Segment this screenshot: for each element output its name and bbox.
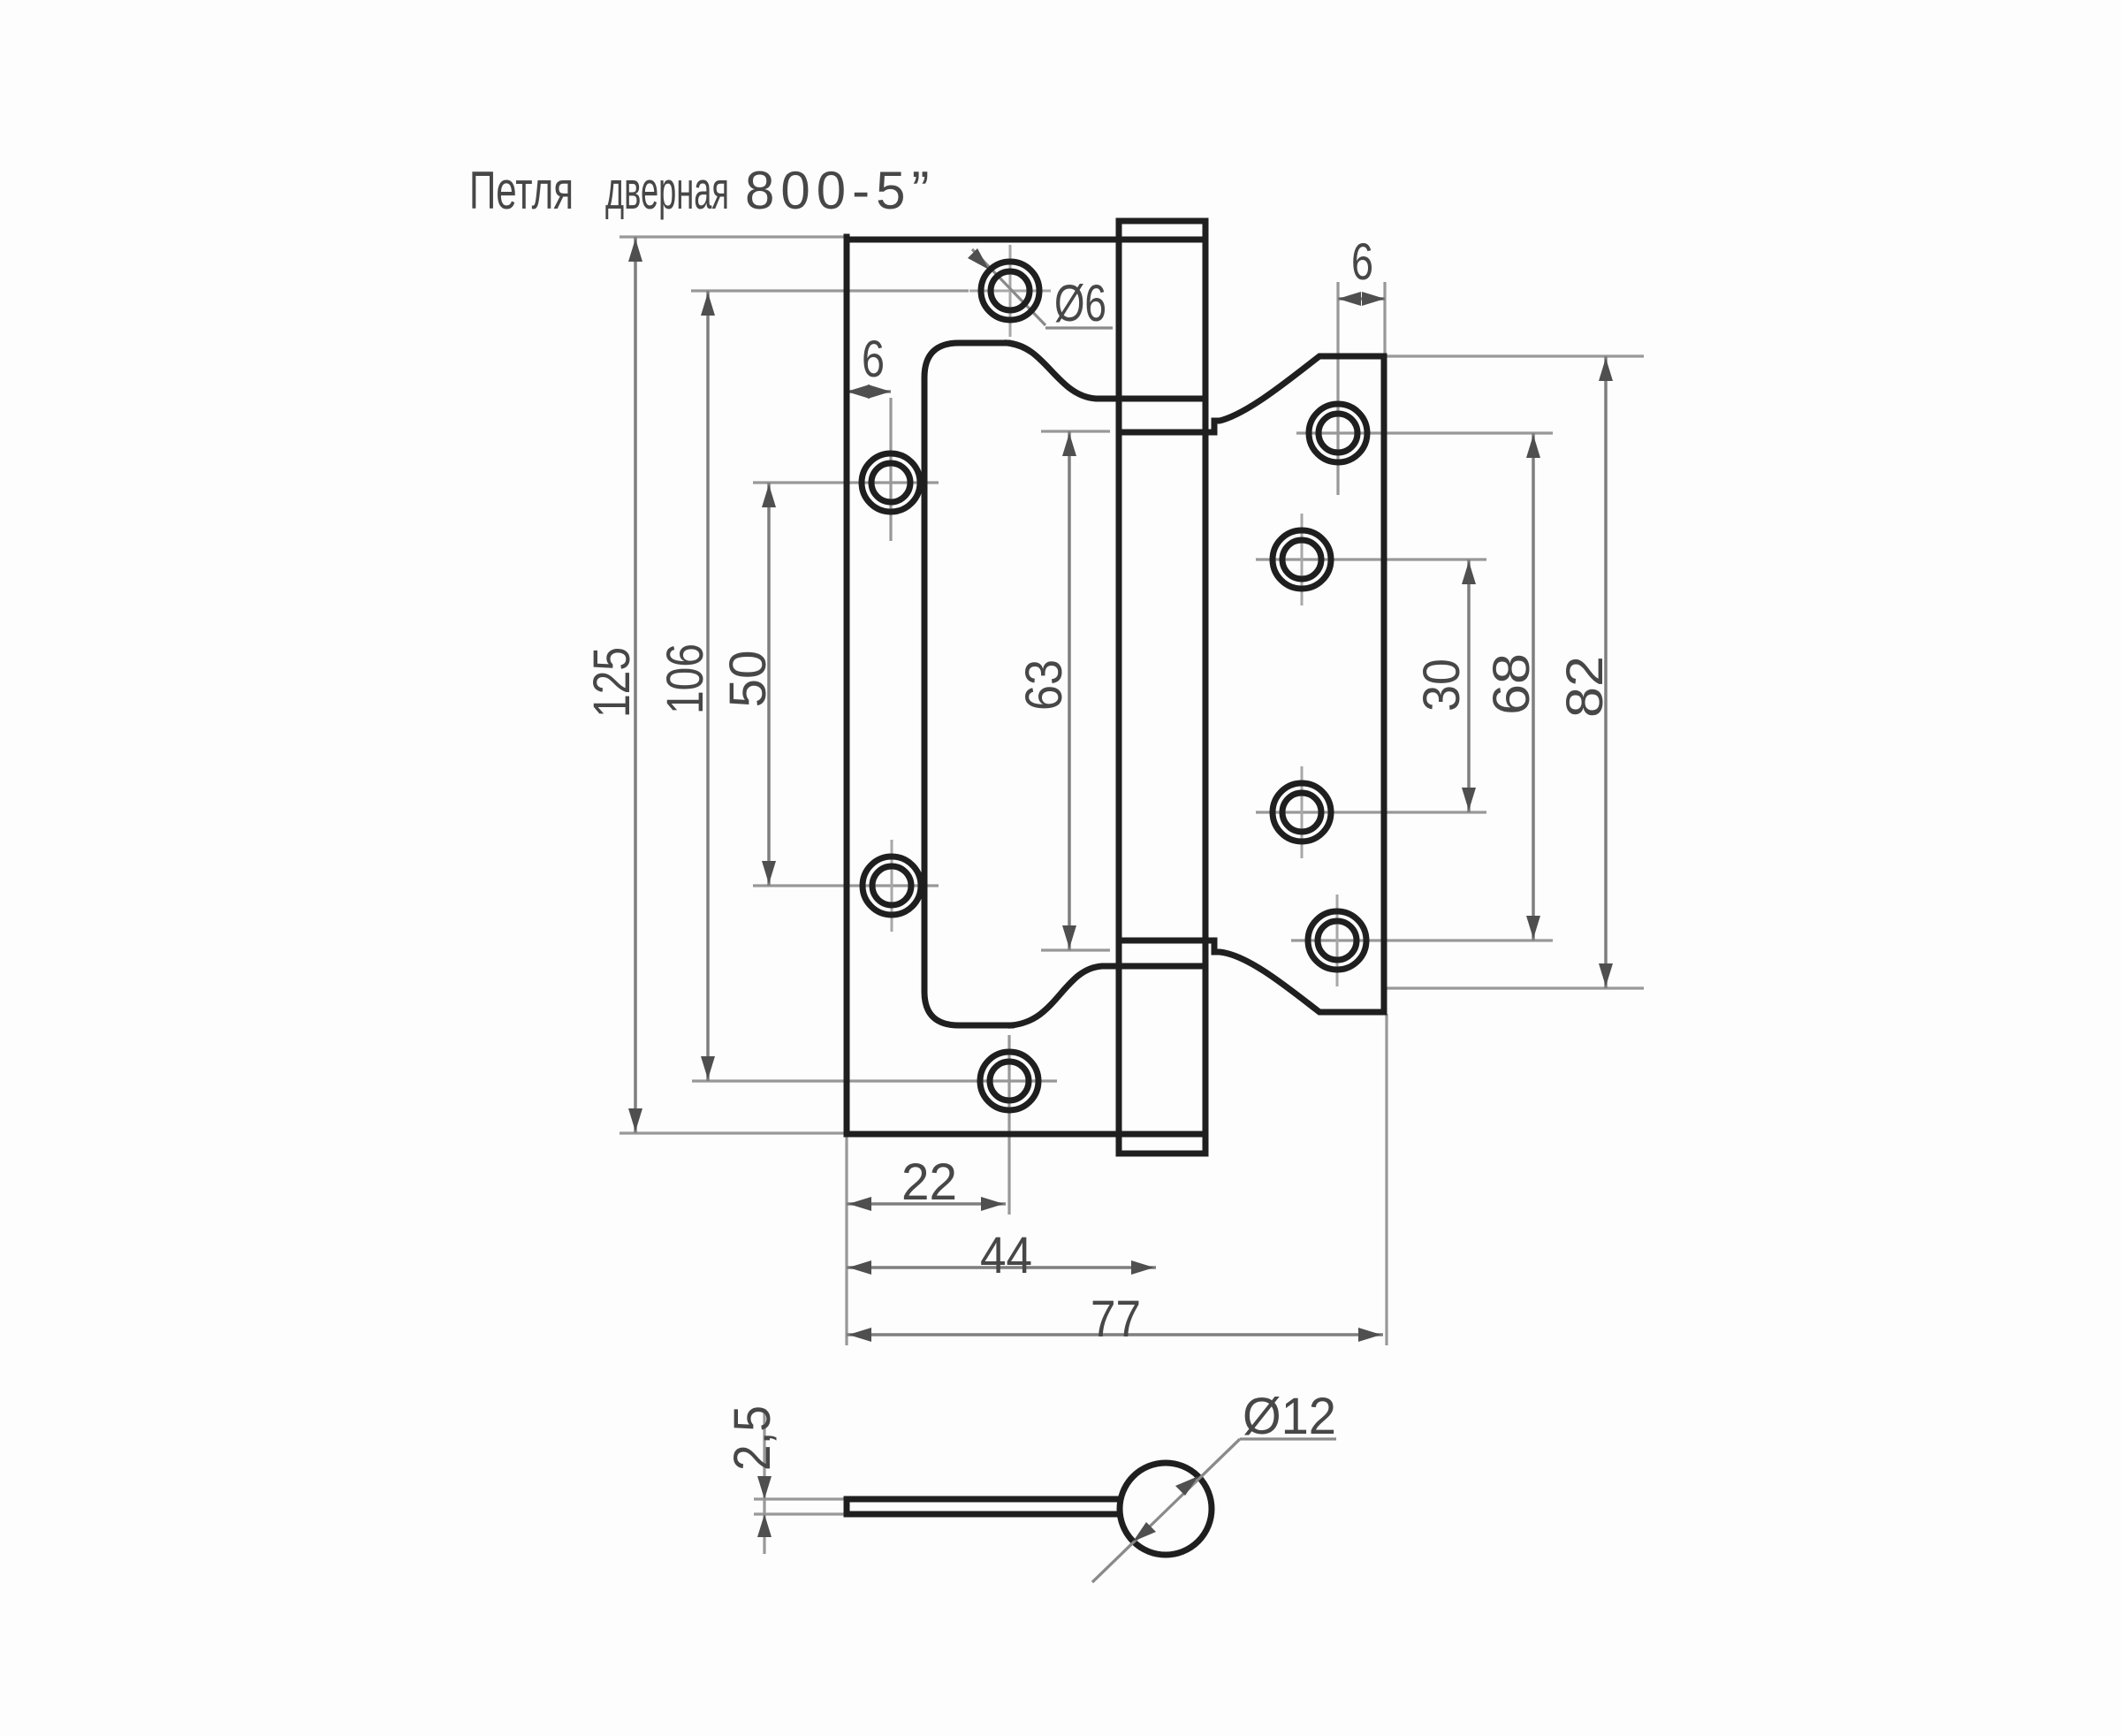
right leaf right edge (1381, 356, 1387, 1012)
dim 6 right line (1338, 297, 1385, 301)
title: Петля дверная 800-5" (469, 161, 935, 220)
svg-text:63: 63 (1015, 659, 1073, 711)
dim 63 line (1068, 431, 1071, 950)
hole D (980, 1052, 1038, 1110)
svg-text:Петля: Петля (469, 161, 574, 220)
dim 30 line (1467, 560, 1471, 812)
hole B (862, 453, 920, 512)
left leaf outline (847, 221, 1384, 1154)
svg-text:106: 106 (657, 643, 714, 714)
svg-text:дверная: дверная (605, 161, 729, 220)
svg-text:44: 44 (980, 1227, 1032, 1284)
hole E (1309, 404, 1367, 462)
dim 50 line (767, 483, 771, 886)
hole C (863, 857, 921, 915)
svg-text:Ø6: Ø6 (1054, 275, 1106, 332)
dim 106 line (706, 291, 710, 1081)
diameter line through pin (1092, 1439, 1240, 1582)
svg-text:22: 22 (901, 1154, 957, 1211)
svg-text:Ø12: Ø12 (1243, 1388, 1336, 1445)
hole A (981, 262, 1039, 320)
dim 6 left line (847, 390, 891, 393)
right leaf bottom edge (1119, 940, 1384, 1012)
svg-text:800-5”: 800-5” (745, 161, 935, 220)
arrowheads (628, 239, 1613, 1537)
dimension texts (583, 233, 1614, 1471)
svg-text:77: 77 (1091, 1291, 1141, 1348)
dim 77 line (847, 1333, 1383, 1336)
svg-text:6: 6 (862, 331, 885, 388)
side view plate bar (847, 1499, 1121, 1514)
right leaf top edge (1119, 356, 1384, 432)
hole H (1308, 911, 1366, 970)
svg-text:6: 6 (1351, 233, 1373, 291)
dim 125 line (634, 237, 637, 1133)
dim 82 line (1604, 356, 1608, 988)
hole center crosshairs (892, 245, 1337, 986)
svg-text:68: 68 (1483, 653, 1540, 715)
pin diameter arrows (1133, 1476, 1198, 1542)
svg-text:125: 125 (583, 647, 641, 718)
hole F (1273, 530, 1331, 589)
screw holes (862, 262, 1367, 1110)
svg-text:50: 50 (719, 651, 777, 708)
side view pin circle (1120, 1463, 1212, 1555)
dimension lines (635, 237, 1606, 1335)
svg-text:2,5: 2,5 (724, 1405, 781, 1471)
left leaf cutout (924, 343, 1011, 1025)
dim 68 line (1532, 433, 1535, 940)
svg-text:30: 30 (1413, 659, 1471, 712)
hinge barrel (1116, 221, 1122, 1154)
dim 44 line (847, 1266, 1156, 1269)
svg-text:82: 82 (1556, 656, 1614, 718)
dim 22 line (847, 1202, 1006, 1206)
hole G (1273, 783, 1331, 841)
leader lines diameter labels (972, 249, 1336, 1582)
extension lines (620, 237, 1644, 1554)
